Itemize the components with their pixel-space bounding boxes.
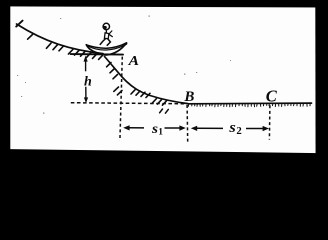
white scan background bbox=[0, 0, 328, 174]
person hand stick bbox=[110, 31, 112, 34]
svg-text:B: B bbox=[183, 89, 194, 105]
person left leg bbox=[100, 39, 105, 45]
svg-text:1: 1 bbox=[158, 127, 163, 137]
person torso bbox=[104, 33, 109, 39]
svg-text:h: h bbox=[84, 74, 92, 89]
sled inner rim line bbox=[89, 46, 124, 50]
person neck bbox=[105, 30, 107, 33]
h dimension arrow up bbox=[85, 61, 87, 72]
slope hatch marks upper section bbox=[28, 35, 103, 60]
svg-text:A: A bbox=[127, 54, 139, 69]
h dimension arrow down bbox=[85, 87, 87, 98]
slope upper curve bbox=[17, 24, 104, 54]
s1 dimension arrow left bbox=[129, 127, 145, 129]
black border bottom bar bbox=[0, 149, 328, 174]
person head bbox=[103, 23, 109, 29]
sled hull bottom bbox=[86, 43, 126, 55]
black border right bar bbox=[315, 0, 328, 174]
black border left bar bbox=[0, 0, 10, 174]
s2 dimension arrow left bbox=[196, 127, 224, 129]
dashed vertical line below C bbox=[268, 105, 271, 139]
dashed vertical line below A bbox=[120, 57, 122, 141]
svg-text:2: 2 bbox=[236, 126, 241, 137]
s1 dimension arrow right bbox=[165, 127, 181, 129]
ground hatch comb below line bbox=[188, 103, 310, 107]
dashed horizontal line at ground level left of B bbox=[71, 103, 187, 104]
dashed vertical line below B bbox=[186, 105, 189, 142]
sled right tip curl bbox=[123, 43, 127, 45]
svg-text:s: s bbox=[228, 120, 236, 136]
slope steep drop below sled bbox=[105, 57, 189, 104]
black border top bar bbox=[0, 0, 328, 8]
ground line from B to right edge bbox=[187, 102, 312, 105]
s2 dimension arrow right bbox=[246, 128, 264, 130]
h reference line under sled bbox=[71, 53, 123, 56]
stray hatch ticks below dashed ground level bbox=[160, 109, 169, 113]
person right leg bbox=[107, 39, 110, 45]
slope hatch marks steep section bbox=[107, 63, 167, 106]
person arm bbox=[109, 34, 113, 36]
tick at slope start bbox=[16, 21, 22, 27]
sled upper rim bbox=[86, 43, 126, 48]
svg-text:C: C bbox=[266, 86, 278, 105]
scan noise specks bbox=[17, 16, 231, 114]
person face spot bbox=[103, 26, 107, 29]
